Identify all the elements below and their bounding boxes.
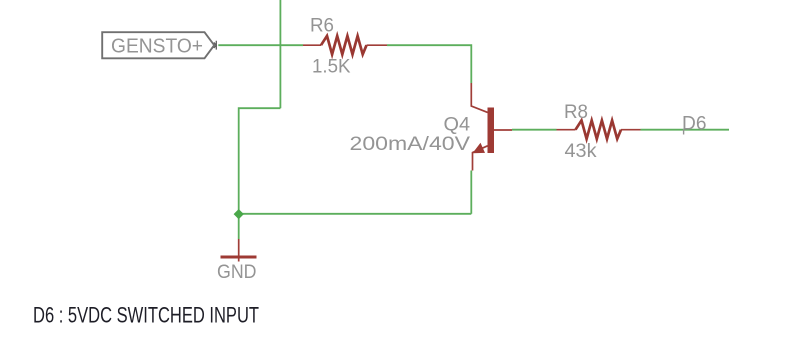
wire R6 to collector corner <box>387 45 471 83</box>
wire elbow left then down to junction <box>239 108 281 214</box>
wire vertical net at x=280 from top edge <box>279 0 281 108</box>
wire bottom rail junction to emitter <box>239 213 472 215</box>
svg-text:GENSTO+: GENSTO+ <box>111 34 203 57</box>
svg-text:43k: 43k <box>565 141 598 162</box>
wire GND stub <box>238 214 240 239</box>
transistor Q4 <box>471 83 512 171</box>
wire from GENSTO+ flag to R6 <box>218 44 303 46</box>
node junction dot <box>234 209 244 219</box>
wire R8 to D6 <box>641 129 730 131</box>
wire emitter down to bottom rail <box>470 171 472 214</box>
svg-text:1.5K: 1.5K <box>312 57 351 78</box>
resistor R6 <box>303 36 387 55</box>
svg-text:D6: D6 <box>682 112 707 134</box>
ground <box>221 239 257 262</box>
svg-text:R8: R8 <box>564 102 588 123</box>
resistor R8 <box>557 120 641 138</box>
node label D6 <box>682 112 707 134</box>
svg-text:D6 : 5VDC SWITCHED INPUT: D6 : 5VDC SWITCHED INPUT <box>33 302 259 327</box>
wire base to R8 <box>512 129 557 131</box>
svg-text:R6: R6 <box>310 15 334 36</box>
net flag GENSTO+ <box>102 32 216 58</box>
svg-text:200mA/40V: 200mA/40V <box>350 133 471 155</box>
svg-text:GND: GND <box>217 262 257 283</box>
